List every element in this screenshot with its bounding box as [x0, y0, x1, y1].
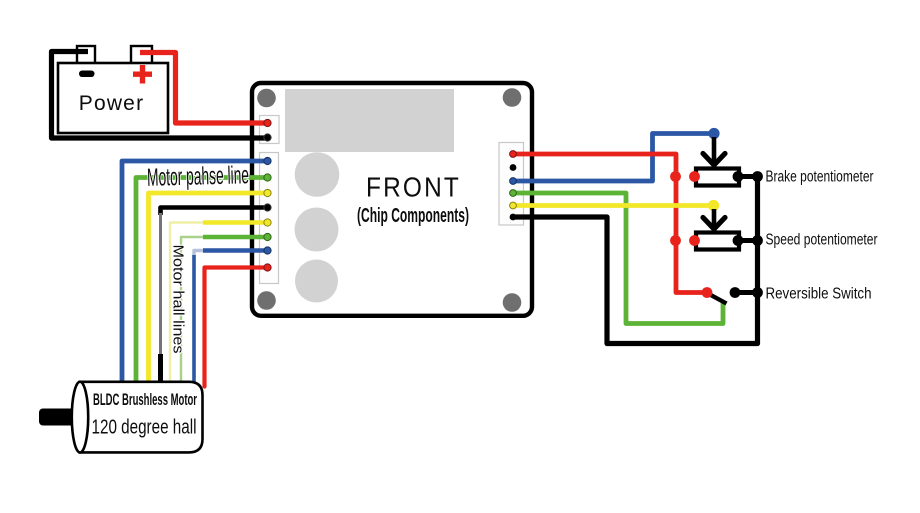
svg-text:Motor hall lines: Motor hall lines	[170, 245, 187, 354]
svg-text:Reversible Switch: Reversible Switch	[766, 286, 872, 303]
svg-text:Speed potentiometer: Speed potentiometer	[766, 232, 878, 249]
svg-text:BLDC Brushless Motor: BLDC Brushless Motor	[93, 390, 197, 409]
svg-text:120 degree hall: 120 degree hall	[92, 417, 197, 439]
svg-text:Power: Power	[79, 92, 145, 115]
svg-text:(Chip Components): (Chip Components)	[357, 205, 469, 227]
svg-text:Brake potentiometer: Brake potentiometer	[766, 169, 874, 186]
svg-text:FRONT: FRONT	[366, 172, 461, 203]
svg-text:Motor pahse line: Motor pahse line	[147, 161, 250, 192]
